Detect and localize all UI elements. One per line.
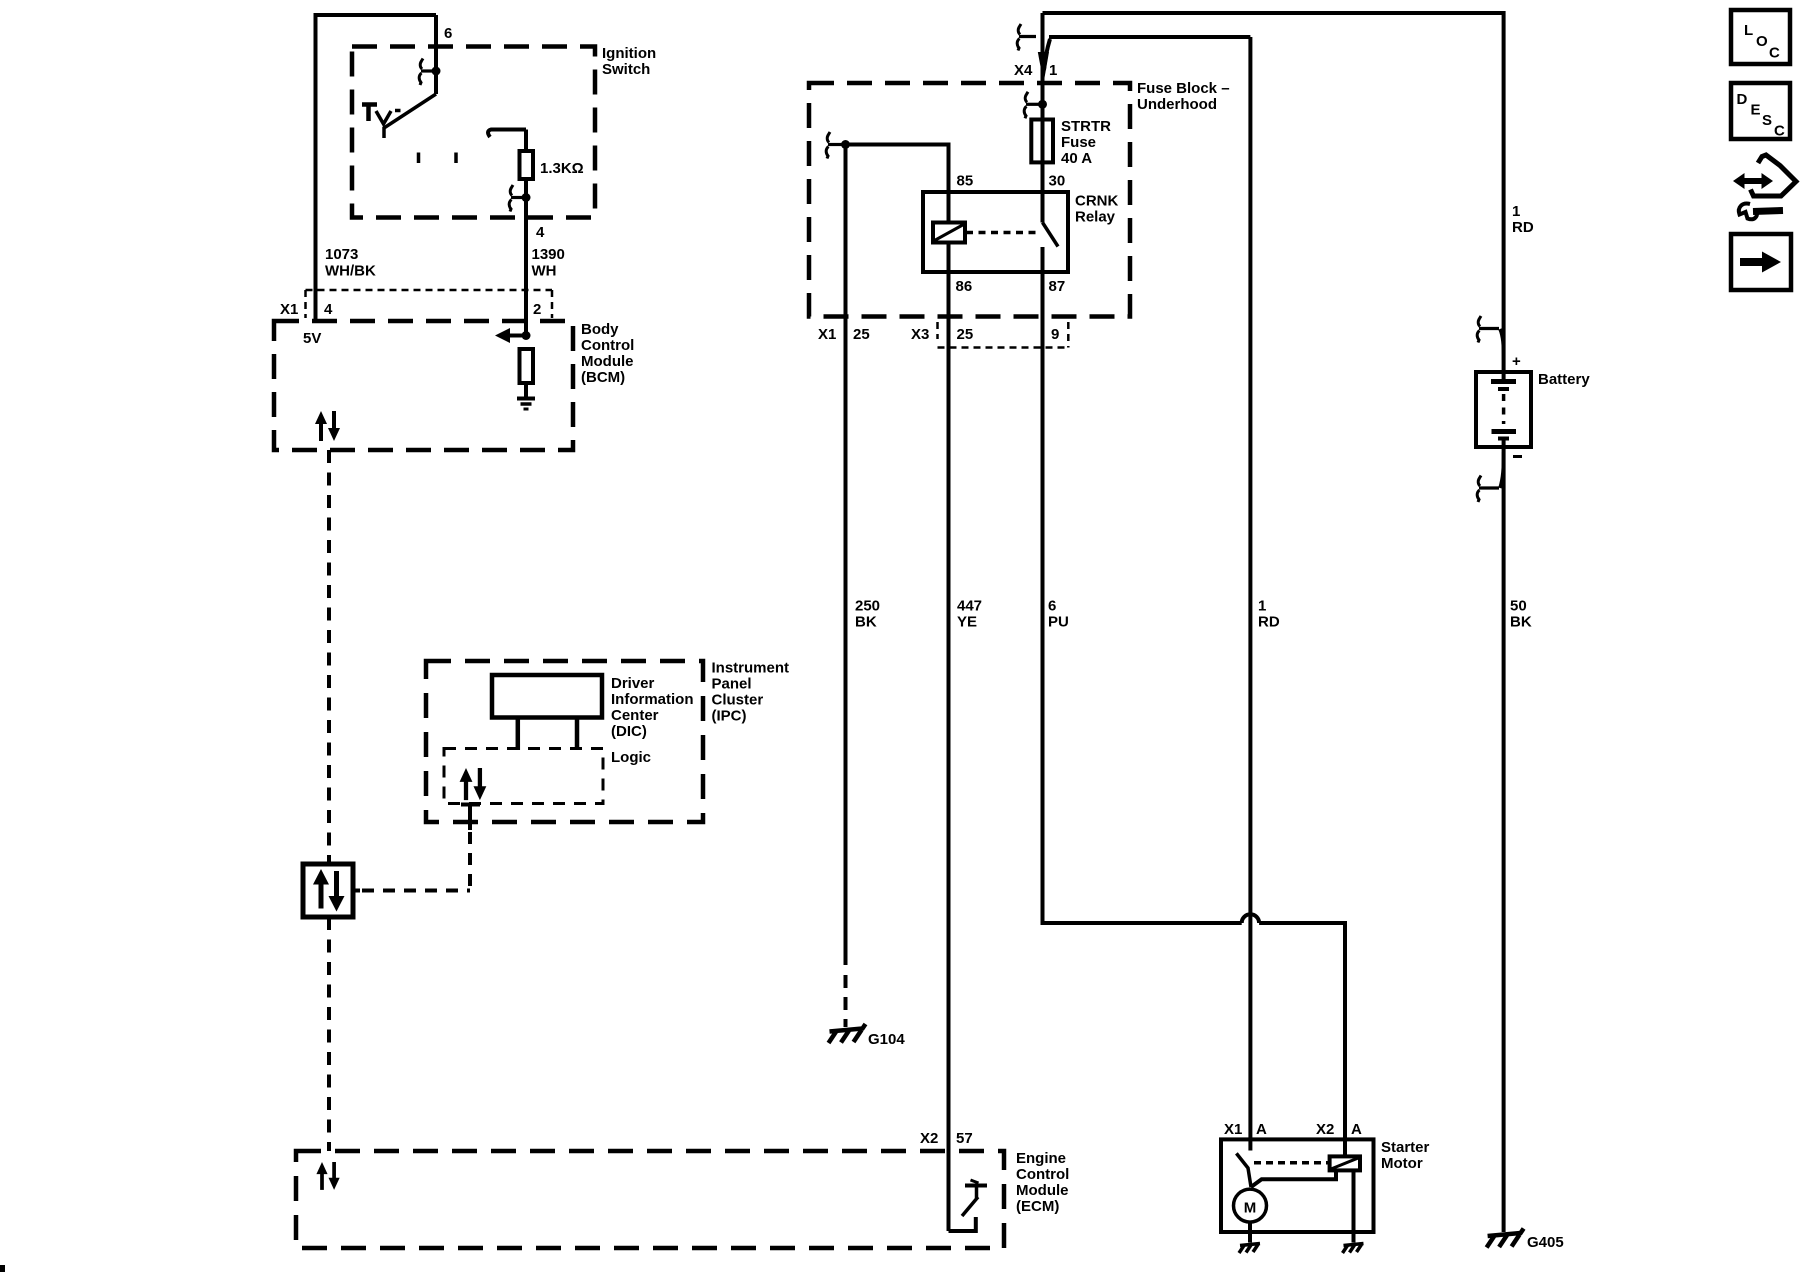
svg-text:E: E: [1751, 102, 1761, 119]
svg-text:WH: WH: [532, 263, 557, 280]
serial data arrows in ECM: [316, 1162, 339, 1190]
wire hop over 1 RD: [1242, 914, 1259, 923]
wire 1073 WH/BK from ignition switch pin 6 loop to BCM X1-4: [316, 15, 437, 322]
icon quick link arrows and wrench: [1733, 155, 1796, 219]
connector X3 outline: [938, 322, 1069, 348]
svg-text:(DIC): (DIC): [611, 723, 647, 740]
fuse STRTR 40 A: [1031, 120, 1053, 163]
starter solenoid coil: [1330, 1156, 1360, 1170]
svg-text:Module: Module: [1016, 1182, 1069, 1199]
ignition switch blade: [384, 94, 436, 138]
svg-text:G104: G104: [868, 1031, 905, 1048]
svg-text:1.3KΩ: 1.3KΩ: [540, 160, 584, 177]
wire motor to ground: [1248, 1222, 1252, 1242]
svg-text:86: 86: [956, 278, 973, 295]
icon DESC box: [1731, 83, 1790, 139]
svg-text:A: A: [1351, 1121, 1362, 1138]
wire DIC left leg: [516, 718, 521, 751]
wire stub into IPC logic: [468, 804, 472, 830]
starter solenoid actuation dashed link: [1254, 1161, 1328, 1165]
wire 1 RD vertical to starter motor X1-A: [1248, 37, 1252, 1151]
svg-text:X2: X2: [920, 1130, 938, 1147]
svg-text:X3: X3: [911, 326, 929, 343]
svg-text:Fuse: Fuse: [1061, 134, 1096, 151]
engine control module ECM box: [296, 1151, 1004, 1248]
svg-text:30: 30: [1049, 173, 1066, 190]
svg-text:1390: 1390: [532, 246, 565, 263]
connector clip above STRTR fuse: [1024, 92, 1028, 119]
svg-text:9: 9: [1051, 326, 1059, 343]
svg-text:Driver: Driver: [611, 675, 655, 692]
splice into fuse block X4-1: [1041, 13, 1045, 116]
starter solenoid switch blade: [1236, 1153, 1251, 1187]
ground under starter motor: [1239, 1244, 1260, 1254]
wire DIC right leg: [575, 718, 580, 751]
wire through fuse to relay pin 30: [1041, 104, 1045, 223]
node BCM pin2 junction: [522, 331, 531, 340]
label battery minus: [1513, 455, 1522, 458]
wire serial data splice box to IPC (dashed): [353, 889, 360, 893]
wire 6 PU relay 87 to starter X2-A: [1043, 272, 1242, 923]
wire solenoid coil to ground: [1352, 1170, 1356, 1242]
wire fuse block X1-25 with clip: [826, 132, 830, 159]
ignition switch position ticks: [419, 153, 457, 164]
svg-text:1: 1: [1512, 203, 1520, 220]
serial data arrows in BCM: [315, 411, 340, 441]
svg-text:YE: YE: [957, 614, 977, 631]
svg-text:M: M: [1244, 1200, 1257, 1217]
svg-text:Cluster: Cluster: [712, 692, 764, 709]
resistor 1.3Kohm: [520, 151, 534, 179]
svg-text:1: 1: [1049, 62, 1057, 79]
svg-text:Control: Control: [581, 337, 634, 354]
ignition switch box: [352, 47, 595, 218]
svg-text:X1: X1: [280, 301, 298, 318]
svg-text:C: C: [1769, 45, 1780, 62]
svg-text:RD: RD: [1258, 614, 1280, 631]
page corner mark: [0, 1265, 5, 1272]
svg-text:CRNK: CRNK: [1075, 193, 1118, 210]
starter motor M: [1234, 1189, 1267, 1222]
svg-text:Control: Control: [1016, 1166, 1069, 1183]
svg-text:A: A: [1256, 1121, 1267, 1138]
svg-text:Starter: Starter: [1381, 1139, 1430, 1156]
svg-text:Logic: Logic: [611, 749, 651, 766]
svg-text:WH/BK: WH/BK: [325, 263, 376, 280]
serial data arrows in logic box: [460, 768, 487, 800]
wire ignition resistor branch hook: [488, 130, 526, 138]
svg-text:1073: 1073: [325, 246, 358, 263]
wire ignition switch pin 6 drop: [434, 15, 438, 94]
wire 447 YE relay 86 to ECM X2-57: [947, 272, 951, 1231]
serial data splice box: [303, 864, 353, 917]
svg-text:(IPC): (IPC): [712, 708, 747, 725]
connector clip on battery positive cable: [1477, 316, 1481, 343]
fuse block underhood box: [809, 83, 1130, 317]
relay coil: [933, 223, 965, 243]
starter motor box: [1221, 1139, 1374, 1232]
node ignition switch pin 6 junction: [432, 67, 441, 76]
svg-text:6: 6: [444, 25, 452, 42]
svg-text:40 A: 40 A: [1061, 150, 1092, 167]
signal arrow into BCM: [508, 334, 526, 338]
ground G104: [829, 1024, 866, 1043]
body control module BCM box: [274, 321, 573, 450]
ignition switch position bracket: [362, 103, 377, 122]
driver information center DIC display: [492, 675, 602, 718]
svg-text:250: 250: [855, 598, 880, 615]
icon go-to arrow box: [1731, 234, 1791, 290]
ground under starter solenoid: [1343, 1244, 1364, 1254]
svg-text:25: 25: [853, 326, 870, 343]
svg-text:57: 57: [956, 1130, 973, 1147]
svg-text:(BCM): (BCM): [581, 369, 625, 386]
svg-text:(ECM): (ECM): [1016, 1198, 1059, 1215]
svg-text:RD: RD: [1512, 219, 1534, 236]
wire solenoid to switch: [1251, 1170, 1336, 1187]
svg-text:X4: X4: [1014, 62, 1033, 79]
svg-text:Switch: Switch: [602, 61, 650, 78]
svg-text:+: +: [1512, 353, 1521, 370]
battery: [1476, 372, 1531, 447]
svg-text:BK: BK: [855, 614, 877, 631]
svg-text:Battery: Battery: [1538, 371, 1590, 388]
CRNK relay box: [923, 192, 1068, 272]
svg-text:Fuse Block –: Fuse Block –: [1137, 80, 1230, 97]
icon LOC box: [1731, 10, 1790, 64]
node junction above fuse: [1038, 100, 1047, 109]
svg-text:4: 4: [536, 224, 545, 241]
svg-text:85: 85: [957, 173, 974, 190]
svg-text:Instrument: Instrument: [712, 660, 790, 677]
logic box in IPC: [444, 749, 603, 804]
svg-text:G405: G405: [1527, 1234, 1564, 1251]
wire 250 BK from X1-25 to G104: [844, 145, 848, 966]
wire junction to relay pin 85: [846, 145, 949, 223]
svg-text:50: 50: [1510, 598, 1527, 615]
svg-text:Relay: Relay: [1075, 209, 1116, 226]
svg-text:D: D: [1737, 91, 1748, 108]
wire battery feed top rail 1 RD: [1043, 13, 1504, 372]
relay coil to pin 86: [947, 243, 951, 273]
svg-text:PU: PU: [1048, 614, 1069, 631]
ground G405: [1487, 1229, 1524, 1248]
serial data arrows in splice box: [313, 869, 345, 912]
svg-text:Module: Module: [581, 353, 634, 370]
svg-text:Motor: Motor: [1381, 1155, 1423, 1172]
svg-text:2: 2: [533, 301, 541, 318]
node junction X1-25: [841, 140, 850, 149]
svg-text:4: 4: [324, 301, 333, 318]
svg-text:Information: Information: [611, 691, 694, 708]
wire 50 BK battery to G405: [1502, 447, 1506, 1232]
svg-text:Engine: Engine: [1016, 1150, 1066, 1167]
svg-text:X1: X1: [818, 326, 836, 343]
svg-text:L: L: [1744, 22, 1753, 39]
svg-text:6: 6: [1048, 598, 1056, 615]
instrument panel cluster IPC box: [426, 661, 703, 822]
relay switch blade pin 30 to 87: [1043, 223, 1059, 247]
svg-text:Body: Body: [581, 321, 619, 338]
svg-text:S: S: [1762, 112, 1772, 129]
relay pin 87 contact: [1041, 247, 1045, 272]
connector clip at resistor output: [509, 185, 513, 212]
svg-text:Center: Center: [611, 707, 659, 724]
wire fused feed rail to starter X1: [1049, 35, 1250, 39]
svg-text:5V: 5V: [303, 330, 321, 347]
connector clip on battery negative cable: [1477, 476, 1481, 503]
connector X1 of BCM: [306, 290, 553, 318]
wire serial data BCM to splice box (dashed): [327, 450, 331, 864]
node resistor output junction: [522, 193, 531, 202]
ground internal BCM: [524, 383, 528, 397]
svg-text:C: C: [1774, 123, 1785, 140]
connector clip at X4: [1017, 24, 1021, 51]
svg-text:87: 87: [1049, 278, 1066, 295]
relay actuation dashed link: [966, 231, 1040, 235]
resistor BCM pulldown: [520, 349, 534, 383]
svg-text:Ignition: Ignition: [602, 45, 656, 62]
ignition switch position V mark: [376, 111, 391, 124]
svg-text:X2: X2: [1316, 1121, 1334, 1138]
svg-text:25: 25: [957, 326, 974, 343]
svg-text:STRTR: STRTR: [1061, 118, 1111, 135]
svg-text:BK: BK: [1510, 614, 1532, 631]
svg-text:O: O: [1756, 33, 1768, 50]
connector clip at ignition switch common: [419, 59, 423, 86]
ECM internal switch to pin 57: [949, 1217, 976, 1231]
svg-text:447: 447: [957, 598, 982, 615]
svg-text:Underhood: Underhood: [1137, 96, 1217, 113]
svg-text:X1: X1: [1224, 1121, 1242, 1138]
svg-text:1: 1: [1258, 598, 1266, 615]
wire serial data splice box to ECM (dashed): [327, 917, 331, 1151]
wire 1390 WH from resistor to BCM X1-2: [524, 179, 528, 336]
svg-text:Panel: Panel: [712, 676, 752, 693]
